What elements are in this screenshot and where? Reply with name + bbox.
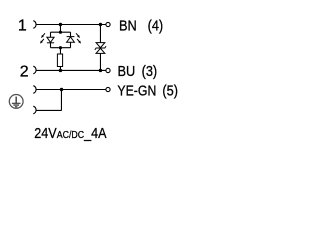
terminal YE-GN circle <box>106 87 110 91</box>
wire LED box left branch <box>50 32 52 48</box>
node: junction TVS on wire 2 <box>99 69 102 72</box>
svg-text:(4): (4) <box>148 16 164 33</box>
svg-text:YE-GN: YE-GN <box>117 82 156 98</box>
wire earth bottom vertical up to junction <box>60 90 62 111</box>
LED D1 (left, cathode down) <box>47 37 54 43</box>
LED D2 light arrows <box>76 33 81 43</box>
svg-text:(5): (5) <box>162 81 178 98</box>
node: LED box bottom junction <box>59 46 62 49</box>
pin 1 contact <box>33 21 36 29</box>
wire LED box bottom <box>51 47 71 49</box>
svg-text:BN: BN <box>119 16 137 33</box>
svg-text:2: 2 <box>20 63 29 80</box>
node: junction resistor on wire 2 <box>59 69 62 72</box>
wire earth bottom horizontal <box>36 109 62 111</box>
terminal BU circle <box>106 68 110 72</box>
node: junction TVS branch on wire 1 <box>99 23 102 26</box>
node: LED box top junction <box>59 31 62 34</box>
wire LED box right branch <box>70 32 72 48</box>
wire pin2 to BU terminal <box>36 69 106 71</box>
wire LED box top <box>51 31 71 33</box>
earth contact bottom <box>33 106 36 114</box>
LED D2 (right, cathode up) <box>67 37 75 43</box>
wire stub resistor to wire 2 <box>59 67 61 71</box>
wire earth top to YE-GN terminal <box>36 89 106 91</box>
terminal BN circle <box>106 22 110 26</box>
earth contact top <box>33 86 36 94</box>
suppressor TVS vertical wire <box>99 25 101 71</box>
svg-text:(3): (3) <box>142 62 158 79</box>
wire pin1 to BN terminal <box>36 24 106 26</box>
node: junction LED branch on wire 1 <box>59 23 62 26</box>
label rating 24VAC/DC_4A <box>34 124 107 141</box>
earth symbol (protective earth in circle) <box>9 95 23 109</box>
resistor R1 <box>57 54 62 67</box>
wire stub from wire1 down to LED box <box>59 25 61 33</box>
LED D1 light arrows <box>40 33 45 43</box>
svg-text:1: 1 <box>18 18 27 35</box>
node: junction earth wires <box>60 88 63 91</box>
wire stub LED box bottom to resistor <box>59 48 61 54</box>
svg-text:BU: BU <box>118 62 136 79</box>
suppressor diode Z1 (bidirectional) <box>95 43 106 54</box>
pin 2 contact <box>33 66 36 74</box>
